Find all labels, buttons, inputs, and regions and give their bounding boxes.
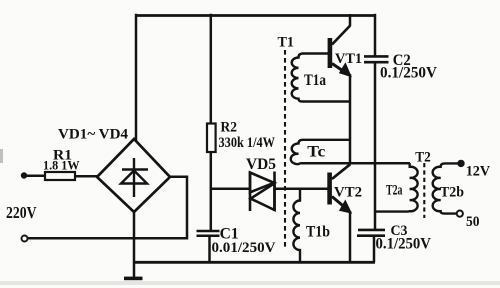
svg-text:T2: T2	[415, 150, 431, 166]
transformer T1 core (dashed)	[284, 50, 286, 250]
transistor VT2	[327, 173, 332, 205]
resistor R1	[45, 172, 75, 180]
winding T1a	[292, 54, 350, 102]
svg-text:0.1/250V: 0.1/250V	[376, 235, 432, 252]
capacitor C3	[357, 230, 385, 236]
wire node A vertical (VT1 emitter down)	[349, 74, 352, 164]
diac VD5	[250, 172, 275, 212]
svg-text:50: 50	[466, 214, 480, 230]
svg-text:R2: R2	[221, 119, 238, 135]
wire bottom rail	[133, 261, 375, 264]
winding Tc	[291, 140, 350, 164]
terminal 220V lower (open circle)	[22, 236, 28, 242]
wire right bus (top rail to C2)	[374, 14, 377, 57]
scan artifact: bottom gray streak	[0, 281, 500, 285]
scan artifact: left edge smudge	[0, 149, 3, 163]
terminal 12V (filled dot)	[457, 160, 464, 167]
wire node line (Tc bottom / node A to T2a)	[301, 162, 410, 165]
wire right bus (C2 to C3)	[374, 62, 377, 230]
capacitor C2	[364, 56, 389, 62]
wire R1 to bridge left vertex	[75, 175, 98, 178]
svg-text:T2b: T2b	[440, 184, 464, 200]
svg-text:Tc: Tc	[307, 144, 325, 161]
terminal 50 (open circle)	[457, 211, 463, 217]
svg-text:1.8 1W: 1.8 1W	[43, 159, 80, 173]
wire VT2 emitter to bottom rail	[349, 211, 352, 262]
diode symbol inside bridge	[121, 158, 148, 197]
wire C1 to bottom rail	[208, 236, 211, 263]
bridge rectifier VD1~VD4 diamond	[97, 139, 170, 212]
svg-text:T2a: T2a	[386, 182, 403, 198]
svg-text:T1a: T1a	[304, 72, 326, 89]
svg-text:0.1/250V: 0.1/250V	[380, 65, 438, 82]
transformer T2 core (dashed)	[423, 163, 425, 218]
svg-text:VD1~ VD4: VD1~ VD4	[58, 127, 129, 143]
wire R2 feed from top rail	[210, 14, 213, 124]
terminal 220V upper (filled dot)	[21, 172, 27, 178]
transistor VT1	[328, 38, 333, 68]
resistor R2	[207, 124, 216, 153]
svg-text:12V: 12V	[466, 163, 491, 179]
wire trigger line (R2 node to VD5)	[210, 187, 250, 190]
wire VD5 to VT2 base	[275, 187, 329, 190]
wire dot to R1	[24, 175, 45, 178]
ground	[124, 277, 143, 281]
winding T2b	[433, 163, 459, 213]
wire R2 bottom to C1	[210, 152, 213, 231]
svg-text:VD5: VD5	[246, 156, 276, 173]
wire left vertical (top rail to bridge top)	[135, 14, 138, 141]
svg-text:220V: 220V	[6, 203, 37, 222]
svg-text:T1: T1	[278, 35, 295, 51]
svg-text:0.01/250V: 0.01/250V	[212, 240, 276, 256]
svg-text:VT2: VT2	[334, 185, 362, 201]
wire VT1 collector to top rail	[349, 14, 352, 26]
wire top rail	[135, 14, 376, 17]
wire bridge bottom vertex down to ground	[133, 212, 136, 278]
capacitor C1	[197, 231, 220, 236]
winding T2a	[375, 163, 418, 211]
wire C3 to bottom rail	[373, 236, 376, 263]
wire lower terminal to bridge right vertex	[28, 177, 188, 239]
svg-text:330k 1/4W: 330k 1/4W	[219, 135, 276, 151]
svg-text:T1b: T1b	[306, 223, 330, 240]
svg-text:VT1: VT1	[335, 51, 362, 67]
winding T1b	[293, 189, 300, 263]
